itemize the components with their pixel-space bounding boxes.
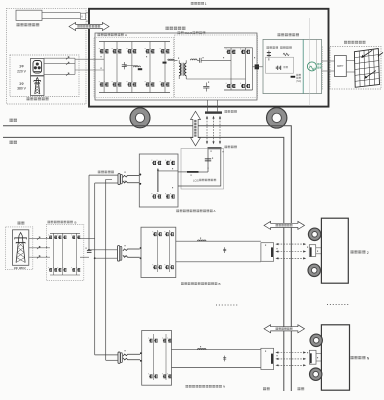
svg-text:CLLC: CLLC xyxy=(185,31,194,35)
wireless arrows row N xyxy=(278,352,304,354)
series inductor Lr1 xyxy=(168,59,174,60)
module A center leg xyxy=(157,169,159,192)
vertical to coil xyxy=(207,149,209,172)
on-board charger box xyxy=(95,33,257,100)
wire xyxy=(199,171,209,173)
PFC A filter capacitor (black) xyxy=(138,68,142,70)
pylon symbol xyxy=(34,78,41,95)
PFC A bridge leg at x=131.9 xyxy=(131,42,133,93)
svg-text:B: B xyxy=(75,220,77,224)
pylon box xyxy=(31,76,45,96)
tiny designators texture xyxy=(125,172,126,173)
CLLC resonant capacitor xyxy=(199,58,201,63)
svg-text:1: 1 xyxy=(205,2,207,6)
label: bidirectional CLLC resonant circuit xyxy=(178,31,181,34)
label: underground xyxy=(10,141,13,144)
svg-text:2: 2 xyxy=(367,251,369,255)
tx coil box B xyxy=(261,243,274,262)
label: ground surface xyxy=(10,119,13,122)
inner partition (teal) xyxy=(302,39,304,93)
wire with breaker xyxy=(44,73,75,75)
svg-text:(SC): (SC) xyxy=(296,80,301,83)
rx coil bar N xyxy=(310,353,312,363)
wire module A to LCS xyxy=(178,171,187,173)
ellipsis (more vehicles) xyxy=(327,304,349,306)
dashed partition near vehicle right edge xyxy=(322,47,324,91)
dc link capacitor (black) xyxy=(255,64,259,69)
label: wireless tx rectifier module B xyxy=(181,282,184,285)
bus rail 3 xyxy=(105,179,107,360)
label: on-board charger xyxy=(166,27,169,30)
svg-text:3Φ: 3Φ xyxy=(19,65,24,69)
CLLC bridge bottom rail xyxy=(224,89,253,91)
label: PFC circuit B xyxy=(48,221,51,224)
svg-text:N: N xyxy=(223,385,225,389)
sun ray arrow 3 xyxy=(378,53,383,57)
banner: surplus energy fed back to grid xyxy=(69,23,109,31)
switch Ks box xyxy=(81,13,86,19)
PFC B dashed box xyxy=(46,224,84,280)
PFC A bridge leg at x=165.0 xyxy=(164,42,166,93)
switch contact B2 xyxy=(123,255,140,257)
junction wire xyxy=(74,58,76,74)
DC source box xyxy=(16,10,42,20)
module B box xyxy=(141,227,176,277)
ground surface line xyxy=(3,126,291,391)
wire with breaker xyxy=(44,63,75,65)
battery sub box xyxy=(266,57,294,73)
module B mosfet pair 1 xyxy=(152,231,156,236)
CLLC bottom return wire xyxy=(186,78,245,80)
vehicle 1 body xyxy=(89,9,329,107)
PFC circuit A dashed box xyxy=(94,38,174,98)
module N mosfet pair 4 xyxy=(162,373,166,378)
module B legs xyxy=(157,230,159,272)
drive motor (green) xyxy=(307,62,316,71)
CLLC right rail xyxy=(252,48,254,90)
svg-text:3Φ 380V: 3Φ 380V xyxy=(14,266,26,270)
module N mosfet pair 1 xyxy=(148,338,152,343)
MPPT box xyxy=(335,56,347,77)
label: AC input power xyxy=(27,97,30,100)
DC input source dashed enclosure xyxy=(7,8,87,104)
svg-text:B: B xyxy=(219,282,221,286)
bus rail 2 xyxy=(94,183,96,355)
row B mid capacitor xyxy=(224,247,226,253)
banner: wireless power transfer (vertical) xyxy=(191,111,201,146)
module B mosfet pair 2 xyxy=(164,231,168,236)
label: supercapacitor SC xyxy=(296,74,298,76)
svg-text:K: K xyxy=(81,14,83,18)
CLLC series wire xyxy=(168,59,178,61)
PFC A dc-link capacitor xyxy=(123,62,125,65)
tx coil box N xyxy=(261,348,274,369)
grid pylon box xyxy=(13,230,29,265)
wires rx to vehicle2 xyxy=(316,247,322,249)
wires grid to PFC B xyxy=(29,237,50,239)
CLLC bridge top rail xyxy=(224,47,253,49)
label: DC input power xyxy=(17,23,20,26)
svg-text:LC/S: LC/S xyxy=(193,178,199,182)
switch contact N2 xyxy=(123,358,140,360)
switch contact N1 xyxy=(123,354,140,356)
module A box xyxy=(139,154,178,207)
PFC A bridge leg at x=150.0 xyxy=(149,42,151,93)
LCS compensation box xyxy=(181,149,224,190)
inner partition xyxy=(315,39,317,93)
vehicle 2 body xyxy=(321,218,348,283)
PFC B top rail xyxy=(50,232,80,234)
row N mid capacitor xyxy=(224,356,226,362)
zigzag resistor xyxy=(283,53,289,55)
AC input source dashed box xyxy=(10,55,79,97)
PFC A inductor xyxy=(134,66,141,67)
module N legs xyxy=(153,334,155,380)
label: electric vehicle N xyxy=(351,356,354,359)
CLLC resonant inductor xyxy=(191,59,198,60)
svg-text:3Φ: 3Φ xyxy=(19,82,24,86)
PFC B bottom rail xyxy=(50,274,80,276)
wire bus to plug N bottom xyxy=(106,359,118,361)
bus capacitor xyxy=(87,249,92,252)
PFC B leg x=62.6 xyxy=(62,233,64,275)
module A mosfet pair 1 xyxy=(152,160,157,165)
junction dots xyxy=(88,249,90,251)
series inductor L2 (bar) xyxy=(187,171,199,173)
plug N xyxy=(118,352,120,363)
plug A xyxy=(118,174,120,185)
wire to PV 1 xyxy=(322,60,335,62)
capacitor C1 xyxy=(205,157,211,160)
label: PFC circuit A xyxy=(98,33,101,36)
module A mosfet pair 3 xyxy=(152,193,157,198)
module B mosfet pair 3 xyxy=(152,264,156,269)
wire xyxy=(42,18,81,20)
module N box xyxy=(142,331,172,386)
module N mosfet pair 3 xyxy=(148,373,152,378)
label: wireless tx rectifier module N xyxy=(186,385,189,388)
wire to PV 2 xyxy=(322,70,335,72)
underground line xyxy=(3,137,284,391)
label: power distribution circuit xyxy=(278,33,281,36)
wheel rear xyxy=(267,108,287,128)
coil right return xyxy=(178,149,221,186)
tx coil bar B xyxy=(271,247,273,257)
ellipsis (more modules) xyxy=(216,304,238,306)
PFC A mid wire xyxy=(124,65,138,67)
wire bus to plug N top xyxy=(95,354,118,356)
supercap (black) xyxy=(291,76,296,78)
transformer T1 xyxy=(179,63,181,66)
plug B xyxy=(118,246,120,262)
sun ray arrow 2 xyxy=(365,71,376,79)
label: ground (bottom) xyxy=(298,387,301,390)
wire module B to tx coil (bottom) xyxy=(176,261,261,263)
generator box xyxy=(31,59,45,76)
CLLC resonant circuit dashed box xyxy=(175,35,258,98)
vehicle N wheel 2 xyxy=(310,368,322,380)
wire MPPT to panel xyxy=(346,60,354,62)
module A mosfet pair 2 xyxy=(165,160,170,165)
transmitting coil bar xyxy=(208,147,222,149)
PFC A output capacitor (black) xyxy=(163,62,167,64)
PFC A bridge leg at x=117.0 xyxy=(116,42,118,93)
wire to PFC A xyxy=(75,58,104,60)
wire xyxy=(42,11,81,13)
label: audio / display circuits xyxy=(267,46,269,48)
svg-text:A: A xyxy=(214,209,216,213)
label: receiving coil xyxy=(225,110,228,113)
inductor on wire xyxy=(198,240,206,241)
switch contact A2 xyxy=(123,181,140,183)
svg-text:380 V: 380 V xyxy=(17,87,27,91)
module A mosfet pair 4 xyxy=(165,193,170,198)
vehicle 2 wheel 1 xyxy=(308,228,320,240)
vehicle N body xyxy=(321,325,349,390)
PFC B output wires xyxy=(80,237,95,239)
bus rail 1 xyxy=(88,175,90,250)
module N mosfet pair 2 xyxy=(162,338,166,343)
battery symbol xyxy=(267,52,271,54)
banner: wireless power transfer (row B) xyxy=(264,221,305,229)
svg-text:A: A xyxy=(125,33,127,37)
CLLC secondary capacitor xyxy=(203,85,209,87)
receiving coil bar xyxy=(205,111,222,113)
switch contact A1 xyxy=(123,175,140,177)
CLLC bridge leg x=231.0 xyxy=(230,48,232,90)
PFC B leg x=76.4 xyxy=(75,233,77,275)
rx coil bar B xyxy=(310,247,312,256)
grid dashed box xyxy=(6,227,33,270)
label: PV power source xyxy=(344,41,347,44)
PFC A top rail xyxy=(99,41,170,43)
CLLC bridge leg x=245.5 xyxy=(245,48,247,90)
wireless arrows row B xyxy=(278,243,304,245)
label: DC transmission line xyxy=(98,171,101,174)
wire MPPT to panel xyxy=(346,71,354,73)
PFC B leg x=53.3 xyxy=(52,233,54,275)
grid pylon xyxy=(14,233,27,263)
module B mosfet pair 4 xyxy=(164,264,168,269)
PFC A bottom rail xyxy=(99,92,170,94)
PV dashed box xyxy=(330,47,381,90)
rx coil box B xyxy=(309,245,315,257)
wire module N to tx coil (bottom) xyxy=(172,367,261,369)
wireless flux arrows xyxy=(206,118,208,142)
wire module B to tx coil (top) xyxy=(176,240,261,242)
switch contact B1 xyxy=(123,249,140,251)
vehicle N wheel 1 xyxy=(310,334,322,346)
label: transmitting coil xyxy=(225,146,228,149)
inductor on wire xyxy=(198,348,206,349)
wire bus to plug B bottom xyxy=(95,257,118,259)
sun ray arrow 1 xyxy=(362,50,373,57)
vehicle 2 wheel 2 xyxy=(308,264,320,276)
label: power grid xyxy=(18,222,21,225)
label: drive motor xyxy=(317,63,319,65)
power distribution box xyxy=(263,39,322,93)
small battery 2 xyxy=(276,66,281,70)
wire bus to plug A bottom xyxy=(95,182,118,184)
wire charger to distribution xyxy=(253,66,264,68)
label: electric vehicle 1 xyxy=(191,2,194,5)
wire with breaker xyxy=(44,57,75,59)
solar panel xyxy=(354,49,379,88)
wire to module A xyxy=(139,174,142,176)
wire to PFC A xyxy=(75,69,104,71)
banner: wireless power transfer (row N) xyxy=(264,325,305,333)
rx coil box N xyxy=(309,350,316,364)
vehicle inner vertical xyxy=(309,18,311,106)
wire bus to plug A top xyxy=(89,174,118,176)
tx coil bar N xyxy=(271,354,273,364)
wire bus to plug B top xyxy=(89,249,117,251)
generator symbol xyxy=(33,61,42,74)
wire module N to tx coil (top) xyxy=(172,349,261,351)
label: underground (bottom) xyxy=(263,387,266,390)
coil stubs from charger xyxy=(207,100,209,111)
wires rx to vehicle N xyxy=(316,352,321,354)
PFC A bridge leg at x=104.1 xyxy=(103,42,105,93)
wheel front xyxy=(130,108,150,128)
svg-text:MPPT: MPPT xyxy=(337,66,344,68)
label: wireless tx rectifier module A xyxy=(176,210,179,213)
svg-text:220 V: 220 V xyxy=(17,69,27,73)
label: electric vehicle 2 xyxy=(351,250,354,253)
wire stub rail3 xyxy=(106,178,112,180)
